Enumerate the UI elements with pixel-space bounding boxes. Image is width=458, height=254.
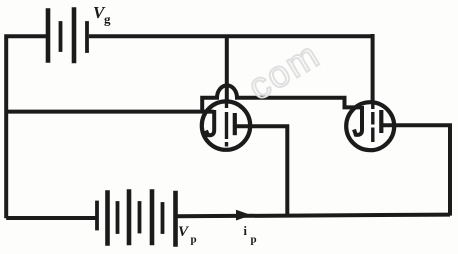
wire: top bus from battery Vg to tube V2 lead corner — [89, 34, 373, 38]
battery Vp — [97, 192, 176, 245]
wire: V2 plate lead to right vertical and bottom bus — [381, 125, 450, 215]
svg-text:V: V — [178, 224, 190, 240]
tube V1 plate bar — [233, 113, 237, 135]
wire: V1 cathode feed (left rail to tube V1) — [6, 110, 214, 114]
tube V2 plate bar — [379, 110, 383, 133]
tube V1 cathode — [206, 110, 214, 135]
wire: hop link V1 junction over grid lead to V2 cathode — [202, 85, 361, 113]
wire: left vertical + top-left segment to battery Vg — [6, 36, 46, 218]
label ip — [244, 224, 257, 246]
label Vp — [178, 224, 197, 246]
tube V2 grid (dashed) — [371, 102, 374, 142]
arrow ip on bottom bus — [237, 210, 250, 219]
tube V2 envelope — [346, 102, 394, 150]
svg-text:g: g — [104, 12, 111, 27]
wire: tube V2 grid lead (down from top bus) — [371, 34, 375, 103]
wire: tube V1 grid lead (down from top bus, under the hop) — [225, 36, 229, 101]
svg-text:i: i — [244, 224, 248, 238]
svg-text:p: p — [191, 234, 197, 246]
tube V1 envelope — [202, 101, 250, 149]
wire: V1 plate lead to bottom bus — [235, 126, 287, 216]
svg-text:p: p — [251, 234, 257, 246]
label Vg — [93, 3, 111, 27]
tube V1 grid (dashed) — [225, 99, 228, 147]
tube V2 cathode — [354, 106, 362, 135]
battery Vg — [48, 10, 87, 62]
wire: bottom bus right segment with arrow junctions — [176, 215, 450, 217]
wire: bottom bus left segment — [6, 216, 96, 220]
